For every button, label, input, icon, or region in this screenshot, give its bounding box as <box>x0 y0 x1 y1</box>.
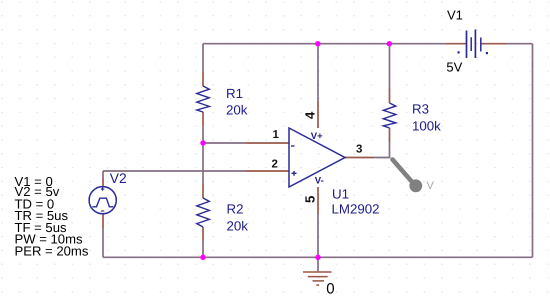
svg-text:20k: 20k <box>226 102 248 117</box>
svg-text:5V: 5V <box>446 60 462 75</box>
pin stub R2 bottom <box>202 227 204 241</box>
wire top-left corner down to R1 <box>202 44 204 72</box>
wire V2 bottom to bottom rail <box>102 228 104 257</box>
svg-text:V1: V1 <box>447 8 463 23</box>
battery V1 <box>467 30 481 59</box>
battery minus mark <box>486 52 488 54</box>
svg-text:4: 4 <box>302 111 317 119</box>
op-amp U1 triangle <box>289 128 345 187</box>
svg-text:PER = 20ms: PER = 20ms <box>15 244 89 259</box>
op-amp minus input mark <box>291 145 295 147</box>
svg-text:R1: R1 <box>226 86 243 101</box>
resistor R2 <box>197 198 210 227</box>
pin stub V1 left <box>446 43 467 45</box>
svg-text:V2: V2 <box>110 171 127 186</box>
node junction R1 R2 pin1 <box>200 140 205 145</box>
wire op-amp pin 5 to bottom rail <box>317 214 319 257</box>
wire R2 bottom to bottom rail <box>202 241 204 257</box>
pin stub op-amp pin 2 <box>246 170 289 172</box>
pin stub R2 top <box>202 184 204 198</box>
node junction R2 bottom rail <box>200 255 205 260</box>
svg-text:LM2902: LM2902 <box>332 201 380 216</box>
V2 minus terminal mark <box>101 210 104 212</box>
pin stub V1 right <box>481 43 506 45</box>
svg-text:100k: 100k <box>412 119 441 134</box>
wire top rail to op-amp pin 4 <box>317 44 319 101</box>
svg-text:V+: V+ <box>311 131 323 142</box>
svg-text:3: 3 <box>356 143 362 155</box>
voltage probe <box>393 160 414 184</box>
svg-text:U1: U1 <box>332 186 349 201</box>
pin stub R3 bottom <box>389 128 391 142</box>
wire R1 bottom to node A <box>202 126 204 143</box>
pin stub R1 bottom <box>202 112 204 126</box>
pin stub op-amp pin 5 <box>317 187 319 214</box>
node junction R3 top rail <box>387 41 392 46</box>
wire op-amp output to R3 bottom <box>374 142 390 158</box>
wire V2 top corner <box>102 171 104 178</box>
node junction pin4 top rail <box>315 41 320 46</box>
wire node A to op-amp pin 1 <box>203 142 246 144</box>
svg-text:1: 1 <box>273 129 280 141</box>
node junction ground bottom rail <box>315 255 320 260</box>
svg-text:V-: V- <box>315 176 324 187</box>
pin stub op-amp pin 4 <box>317 101 319 128</box>
battery plus mark <box>458 51 460 53</box>
op-amp plus input mark <box>292 172 297 174</box>
wire V2 top to op-amp pin 2 <box>103 170 246 172</box>
V2 plus terminal mark <box>101 188 104 190</box>
wire battery right to top-right corner <box>506 43 533 45</box>
ground <box>317 257 319 271</box>
V2 parameter text block <box>15 174 89 259</box>
pin stub op-amp pin 1 <box>246 142 289 144</box>
pin stub R1 top <box>202 72 204 86</box>
svg-text:V: V <box>427 180 435 192</box>
pin stub V2 bottom <box>102 214 104 228</box>
pulse source V2 <box>89 187 116 214</box>
wire node A down toward R2 <box>202 143 204 184</box>
svg-text:20k: 20k <box>227 219 249 234</box>
wire bottom rail <box>103 256 533 258</box>
svg-text:R2: R2 <box>227 202 244 217</box>
pin stub R3 top <box>389 89 391 103</box>
V2 pulse waveform <box>92 198 113 207</box>
pin stub op-amp pin 3 output <box>345 157 374 159</box>
resistor R1 <box>197 86 210 112</box>
pin stub V2 top <box>102 178 104 187</box>
svg-text:5: 5 <box>302 195 317 203</box>
svg-text:0: 0 <box>326 280 334 297</box>
resistor R3 <box>383 103 396 128</box>
svg-text:R3: R3 <box>412 102 429 117</box>
wire top rail <box>203 43 446 45</box>
wire R3 top to top rail <box>389 44 391 89</box>
wire right edge <box>532 44 534 258</box>
svg-text:2: 2 <box>272 158 278 170</box>
